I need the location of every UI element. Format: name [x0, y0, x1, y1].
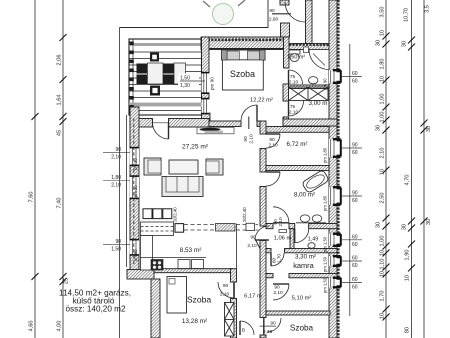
svg-text:1,70: 1,70 [380, 291, 386, 302]
svg-text:10: 10 [405, 275, 411, 281]
svg-text:pm 1,50: pm 1,50 [323, 277, 328, 293]
dimension ticks [32, 33, 428, 321]
wall block below terrace window [202, 113, 211, 127]
door bedroom [241, 105, 257, 121]
svg-text:90: 90 [270, 321, 276, 327]
door WC 1,06 [255, 226, 269, 240]
shower corner bath [309, 50, 329, 70]
chimney X-box hall [225, 303, 235, 337]
svg-text:60: 60 [352, 285, 358, 291]
svg-text:30: 30 [376, 222, 382, 228]
svg-text:27,25 m²: 27,25 m² [182, 144, 209, 151]
svg-text:3,30 m²: 3,30 m² [295, 254, 316, 261]
svg-text:5,10 m²: 5,10 m² [292, 296, 312, 302]
svg-text:1,64: 1,64 [57, 95, 63, 106]
svg-text:10: 10 [380, 30, 386, 36]
svg-text:30: 30 [402, 224, 408, 230]
svg-text:1,80: 1,80 [111, 175, 121, 181]
svg-text:2,06: 2,06 [57, 55, 63, 66]
svg-text:2,10: 2,10 [278, 217, 284, 227]
svg-text:4,70: 4,70 [405, 175, 411, 186]
svg-text:2,60: 2,60 [269, 17, 279, 23]
dim line right R3 [423, 0, 425, 338]
door kamra [271, 253, 284, 266]
kitchen sinks [178, 260, 190, 269]
svg-text:2,15: 2,15 [263, 329, 273, 335]
svg-text:6,17 m: 6,17 m [244, 294, 262, 300]
svg-text:Szoba: Szoba [230, 69, 255, 79]
svg-text:30: 30 [402, 41, 408, 47]
living room top wall east part [169, 119, 210, 128]
svg-text:80: 80 [405, 327, 411, 333]
bath/storage wall [289, 85, 330, 89]
parapet labels right windows [323, 78, 328, 293]
svg-text:1,90: 1,90 [405, 250, 411, 261]
west wall window 1 (90) [103, 147, 139, 166]
svg-text:90: 90 [269, 137, 275, 143]
terrace/bedroom wall [202, 37, 210, 73]
svg-text:90: 90 [274, 285, 280, 291]
sink bath [309, 77, 318, 84]
szoba13 left wall [151, 279, 160, 338]
svg-text:60: 60 [352, 79, 358, 85]
svg-text:4,00: 4,00 [57, 321, 63, 332]
svg-text:90: 90 [223, 283, 229, 289]
sofa big [162, 177, 203, 197]
kitchen dashed upper cabinets [184, 224, 258, 226]
kitchen bottom wall + SW corner [127, 270, 154, 280]
svg-text:25: 25 [64, 278, 70, 284]
west outer wall [130, 107, 139, 270]
svg-text:2,10: 2,10 [247, 243, 257, 249]
svg-text:90: 90 [243, 136, 249, 142]
svg-text:60: 60 [352, 242, 358, 248]
svg-text:6,72 m²: 6,72 m² [287, 141, 308, 148]
svg-text:7,40: 7,40 [57, 198, 63, 209]
svg-text:Szoba: Szoba [187, 295, 212, 305]
kitchen left counter [141, 236, 153, 271]
bed bedroom [222, 50, 266, 90]
living room top wall west part [130, 119, 153, 128]
svg-text:10: 10 [380, 313, 386, 319]
svg-text:10: 10 [380, 271, 386, 277]
svg-text:össz: 140,20 m2: össz: 140,20 m2 [65, 305, 126, 314]
window kamra 60/60 [329, 255, 362, 269]
window 5,10 60/60 [329, 277, 362, 291]
svg-text:60: 60 [352, 256, 358, 262]
bedroom/bath separating wall [284, 37, 290, 68]
svg-text:60: 60 [352, 71, 358, 77]
svg-text:1,50: 1,50 [111, 246, 121, 252]
door 1,49 [295, 229, 309, 243]
door 8,00 top [266, 172, 280, 186]
west wall window 3 (90) [103, 239, 139, 256]
svg-text:90: 90 [250, 235, 256, 241]
door bathroom 1,60 [289, 70, 303, 84]
svg-text:8,00 m²: 8,00 m² [294, 192, 315, 199]
svg-text:60: 60 [352, 150, 358, 156]
entry door top [272, 2, 305, 22]
kitchen appliance squares [143, 209, 172, 219]
svg-text:10: 10 [380, 76, 386, 82]
svg-text:10,70: 10,70 [404, 8, 410, 22]
window 8,00 90/60 [329, 186, 362, 206]
svg-text:2,10: 2,10 [111, 183, 121, 189]
svg-text:75: 75 [290, 74, 296, 80]
door hall bottom [240, 321, 254, 335]
stove [151, 260, 163, 271]
terrace boundary [120, 0, 269, 28]
terrace wall window upper (1,50/1,30) [178, 72, 215, 94]
svg-text:1,00: 1,00 [380, 94, 386, 105]
door 5,10 [273, 284, 289, 300]
svg-text:2,10: 2,10 [249, 134, 255, 144]
summary text block [59, 289, 131, 314]
kamra door labels [272, 254, 282, 263]
right wall windows [329, 69, 362, 291]
porch wall left [280, 0, 289, 5]
svg-text:60: 60 [352, 234, 358, 240]
kitchen hatched block [216, 224, 236, 232]
8,00 bottom wall (gaps for doors) [266, 224, 273, 229]
svg-text:Szoba: Szoba [290, 324, 314, 333]
window 1,49 60/60 [329, 233, 362, 248]
door storage 3,00 [289, 101, 304, 116]
svg-text:90: 90 [115, 147, 121, 153]
armchair right [206, 159, 223, 175]
svg-text:12,22 m²: 12,22 m² [250, 98, 273, 104]
double sinks 8,00 [296, 222, 326, 224]
svg-text:2,10: 2,10 [268, 143, 278, 149]
svg-text:8,53 m²: 8,53 m² [180, 247, 202, 254]
top outer wall left part [201, 37, 284, 50]
door 8,00 bottom [273, 207, 289, 223]
window 6,72 90/60 [329, 138, 362, 158]
svg-text:1,60 m²: 1,60 m² [287, 55, 305, 61]
svg-text:2,10: 2,10 [111, 154, 121, 160]
terrace chairs [137, 64, 148, 74]
svg-text:2,10: 2,10 [289, 110, 299, 116]
svg-text:1,10: 1,10 [380, 259, 386, 270]
svg-text:7,60: 7,60 [29, 192, 35, 203]
door 6,72 [266, 134, 280, 148]
svg-text:pm 1,50: pm 1,50 [323, 236, 328, 252]
svg-text:10: 10 [380, 250, 386, 256]
svg-text:90: 90 [269, 8, 275, 14]
terrace fence posts [129, 42, 134, 116]
svg-text:60: 60 [352, 198, 358, 204]
dim line left L2 [62, 0, 64, 338]
svg-text:3,00 m: 3,00 m [309, 100, 328, 107]
svg-text:B: B [242, 328, 245, 334]
hall left wall (gap szoba13 door) [231, 269, 237, 282]
terrace thick deck bands [129, 43, 202, 46]
svg-text:30: 30 [376, 40, 382, 46]
bed szoba 13,28 [167, 277, 187, 314]
svg-text:2,10: 2,10 [380, 148, 386, 159]
svg-text:10: 10 [380, 169, 386, 175]
toilet bath 1,60 [289, 50, 300, 62]
svg-text:20/2,40: 20/2,40 [173, 207, 178, 222]
fireplace [197, 127, 234, 134]
right wall outer insulation dots [337, 0, 339, 338]
terrace tables [148, 63, 164, 84]
bathtub 8,00 [302, 170, 330, 194]
svg-text:2,50: 2,50 [380, 193, 386, 204]
svg-text:30: 30 [426, 126, 432, 132]
storage X-box 3,00 [289, 87, 329, 101]
svg-text:1,06 m: 1,06 m [274, 236, 292, 242]
dim line right R1 [385, 0, 387, 338]
sink 1,49 [308, 243, 315, 249]
door szoba bottom-right [264, 318, 281, 335]
svg-text:1,00: 1,00 [380, 236, 386, 247]
west wall center dashed line [133, 118, 135, 266]
svg-text:2,10: 2,10 [273, 290, 283, 296]
WC divider [290, 229, 294, 249]
door jamb lines [153, 68, 309, 335]
svg-text:pm 1,80: pm 1,80 [323, 195, 328, 211]
top outer wall right part [289, 44, 337, 50]
west wall window 2 (1,80) [103, 175, 139, 199]
kitchen upper counter [141, 222, 184, 236]
svg-text:2,10: 2,10 [289, 80, 299, 86]
window dim line right [349, 44, 351, 316]
svg-text:60: 60 [352, 263, 358, 269]
svg-text:90: 90 [352, 191, 358, 197]
svg-text:pm 90: pm 90 [210, 77, 215, 90]
ticks L1 [32, 113, 39, 120]
svg-text:4,60: 4,60 [29, 321, 35, 332]
door szoba 13,28 [218, 282, 234, 299]
wall below 3.00 room [283, 119, 337, 126]
svg-text:75: 75 [290, 104, 296, 110]
right outer wall [329, 0, 337, 338]
6,72 room top wall [264, 127, 329, 133]
svg-text:2,10: 2,10 [220, 292, 230, 298]
bedroom door leader [248, 117, 250, 130]
svg-text:1,00: 1,00 [380, 112, 386, 123]
kamra bottom wall (gap 5,10 door) [266, 274, 273, 278]
svg-text:1,80: 1,80 [380, 59, 386, 70]
svg-text:pm 1,50: pm 1,50 [323, 256, 328, 272]
svg-text:90: 90 [352, 143, 358, 149]
insulation dashed line west [126, 115, 128, 267]
ticks R2 [408, 37, 415, 44]
coffee table [169, 160, 198, 174]
long central wall (with door gaps) [260, 121, 266, 134]
svg-text:1,49: 1,49 [308, 237, 319, 243]
svg-text:1,30: 1,30 [180, 83, 190, 89]
door terrace-living [152, 123, 168, 140]
bedroom bottom wall [209, 121, 241, 127]
svg-text:3,5: 3,5 [425, 5, 431, 13]
WC door swing mark [255, 238, 260, 249]
dim line left L1 [34, 0, 36, 338]
terrace decking [129, 39, 202, 115]
kitchen bottom counter edge [141, 257, 207, 259]
terrace wall window lower [202, 98, 210, 115]
svg-text:1,50: 1,50 [180, 76, 190, 82]
svg-text:30: 30 [376, 125, 382, 131]
svg-text:pm 1,80: pm 1,80 [323, 147, 328, 163]
svg-text:20/2,40: 20/2,40 [242, 207, 247, 222]
svg-text:45: 45 [57, 130, 63, 136]
svg-text:kamra: kamra [293, 261, 314, 270]
tree [203, 0, 245, 25]
svg-text:30: 30 [426, 219, 432, 225]
svg-text:3,50: 3,50 [380, 7, 386, 18]
5,10 bottom wall [266, 311, 330, 315]
window bath 60/60 [329, 69, 362, 85]
armchair left [144, 158, 161, 175]
svg-text:90: 90 [115, 239, 121, 245]
ticks L2 [60, 34, 67, 41]
svg-text:13,28 m²: 13,28 m² [182, 318, 207, 325]
dim line right R2 [411, 0, 413, 338]
ticks R3 [421, 120, 428, 127]
porch wall right [306, 0, 313, 44]
west wall pm labels [133, 158, 138, 261]
plot boundary line west [119, 28, 121, 338]
6,72 / 8,00 separator [266, 166, 329, 171]
WC row bottom wall (gap kamra door) [266, 249, 271, 253]
ticks R1 [383, 33, 390, 40]
svg-text:60: 60 [352, 277, 358, 283]
toilet WC 1,06 [279, 230, 287, 233]
